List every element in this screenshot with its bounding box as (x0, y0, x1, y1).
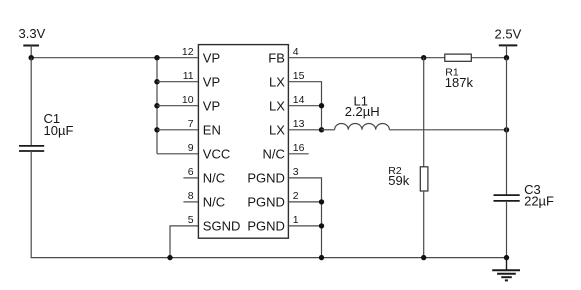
wire pin 11 stub (157, 81, 198, 83)
svg-text:PGND: PGND (247, 171, 285, 186)
wire N/C pin16 stub (288, 153, 308, 155)
resistor R1 (445, 54, 472, 61)
junction at 3.3V / C1 (29, 55, 34, 60)
svg-text:5: 5 (188, 214, 194, 226)
svg-text:16: 16 (293, 142, 305, 154)
svg-text:14: 14 (293, 94, 305, 106)
wire C3 to ground (506, 201, 508, 258)
wire FB node down to R2 (423, 58, 425, 167)
junction 2.5V / R1 (504, 55, 509, 60)
svg-text:7: 7 (188, 118, 194, 130)
svg-text:12: 12 (182, 46, 194, 58)
power symbol 2.5V (499, 45, 518, 57)
wire R1 to 2.5V rail (471, 57, 506, 59)
junction PGND pin1 (319, 223, 324, 228)
wire pin 9 VCC stub (157, 153, 198, 155)
power symbol 3.3V (23, 46, 39, 58)
left bus vertical (156, 58, 158, 154)
svg-text:SGND: SGND (203, 219, 241, 234)
svg-text:N/C: N/C (203, 195, 225, 210)
resistor R2 (420, 167, 428, 191)
svg-text:FB: FB (268, 51, 285, 66)
svg-text:2.2µH: 2.2µH (345, 104, 380, 119)
label C3 22uF (524, 182, 554, 209)
junction L1 output (504, 127, 509, 132)
svg-text:PGND: PGND (247, 219, 285, 234)
svg-text:4: 4 (293, 46, 299, 58)
IC U1 body (198, 45, 288, 239)
capacitor C3 (494, 195, 520, 201)
svg-text:10µF: 10µF (44, 123, 74, 138)
wire pin 7 stub (157, 129, 198, 131)
wire LX bus (288, 82, 321, 130)
wire 3.3V rail to left bus (31, 57, 198, 59)
wire pin 5 SGND stub (170, 226, 198, 258)
wire C1 to bottom rail (31, 151, 506, 258)
svg-text:3.3V: 3.3V (19, 26, 46, 41)
svg-text:15: 15 (293, 70, 305, 82)
capacitor C1 (19, 146, 44, 151)
wire pin 10 stub (157, 105, 198, 107)
inductor L1 (335, 124, 390, 130)
svg-text:10: 10 (182, 94, 194, 106)
junction pin7 bus (154, 127, 159, 132)
svg-text:187k: 187k (445, 75, 474, 90)
junction PGND pin2 (319, 199, 324, 204)
svg-text:LX: LX (269, 99, 285, 114)
svg-text:N/C: N/C (263, 147, 285, 162)
label R2 59k (388, 165, 409, 188)
svg-text:13: 13 (293, 118, 305, 130)
wire L1 to output rail (389, 129, 506, 131)
junction pin10 bus (154, 103, 159, 108)
label C1 10uF (44, 111, 74, 138)
label R1 187k (445, 67, 474, 91)
svg-text:PGND: PGND (247, 195, 285, 210)
svg-text:VP: VP (203, 99, 220, 114)
svg-text:22µF: 22µF (524, 193, 554, 208)
label L1 2.2uH (345, 93, 380, 119)
svg-text:3: 3 (293, 166, 299, 178)
junction pin12 bus (154, 55, 159, 60)
svg-text:59k: 59k (388, 173, 409, 188)
svg-text:2: 2 (293, 190, 299, 202)
wire PGND bus (288, 178, 321, 258)
junction pin11 bus (154, 79, 159, 84)
wire output rail down to C3 (506, 58, 508, 195)
wire 3.3V down to C1 (30, 58, 32, 146)
wire LX to L1 (322, 129, 335, 131)
wire pin 8 N/C stub (183, 201, 198, 203)
svg-text:LX: LX (269, 75, 285, 90)
junction LX pin13 (319, 127, 324, 132)
svg-text:1: 1 (293, 214, 299, 226)
svg-text:VCC: VCC (203, 147, 230, 162)
junction FB node (421, 55, 426, 60)
svg-text:8: 8 (188, 190, 194, 202)
svg-text:9: 9 (188, 142, 194, 154)
junction LX pin14 (319, 103, 324, 108)
junction PGND bottom (319, 255, 324, 260)
wire R2 to bottom rail (423, 191, 425, 258)
svg-text:LX: LX (269, 123, 285, 138)
junction R2 bottom (421, 255, 426, 260)
wire pin 6 N/C stub (183, 177, 198, 179)
svg-text:N/C: N/C (203, 171, 225, 186)
svg-text:6: 6 (188, 166, 194, 178)
ground (492, 258, 520, 281)
junction ground node (504, 255, 509, 260)
svg-text:2.5V: 2.5V (495, 27, 522, 42)
svg-text:11: 11 (183, 70, 194, 82)
svg-text:VP: VP (203, 51, 220, 66)
svg-text:EN: EN (203, 123, 221, 138)
svg-text:VP: VP (203, 75, 220, 90)
junction SGND bottom (167, 255, 172, 260)
wire FB to R1 (288, 57, 444, 59)
